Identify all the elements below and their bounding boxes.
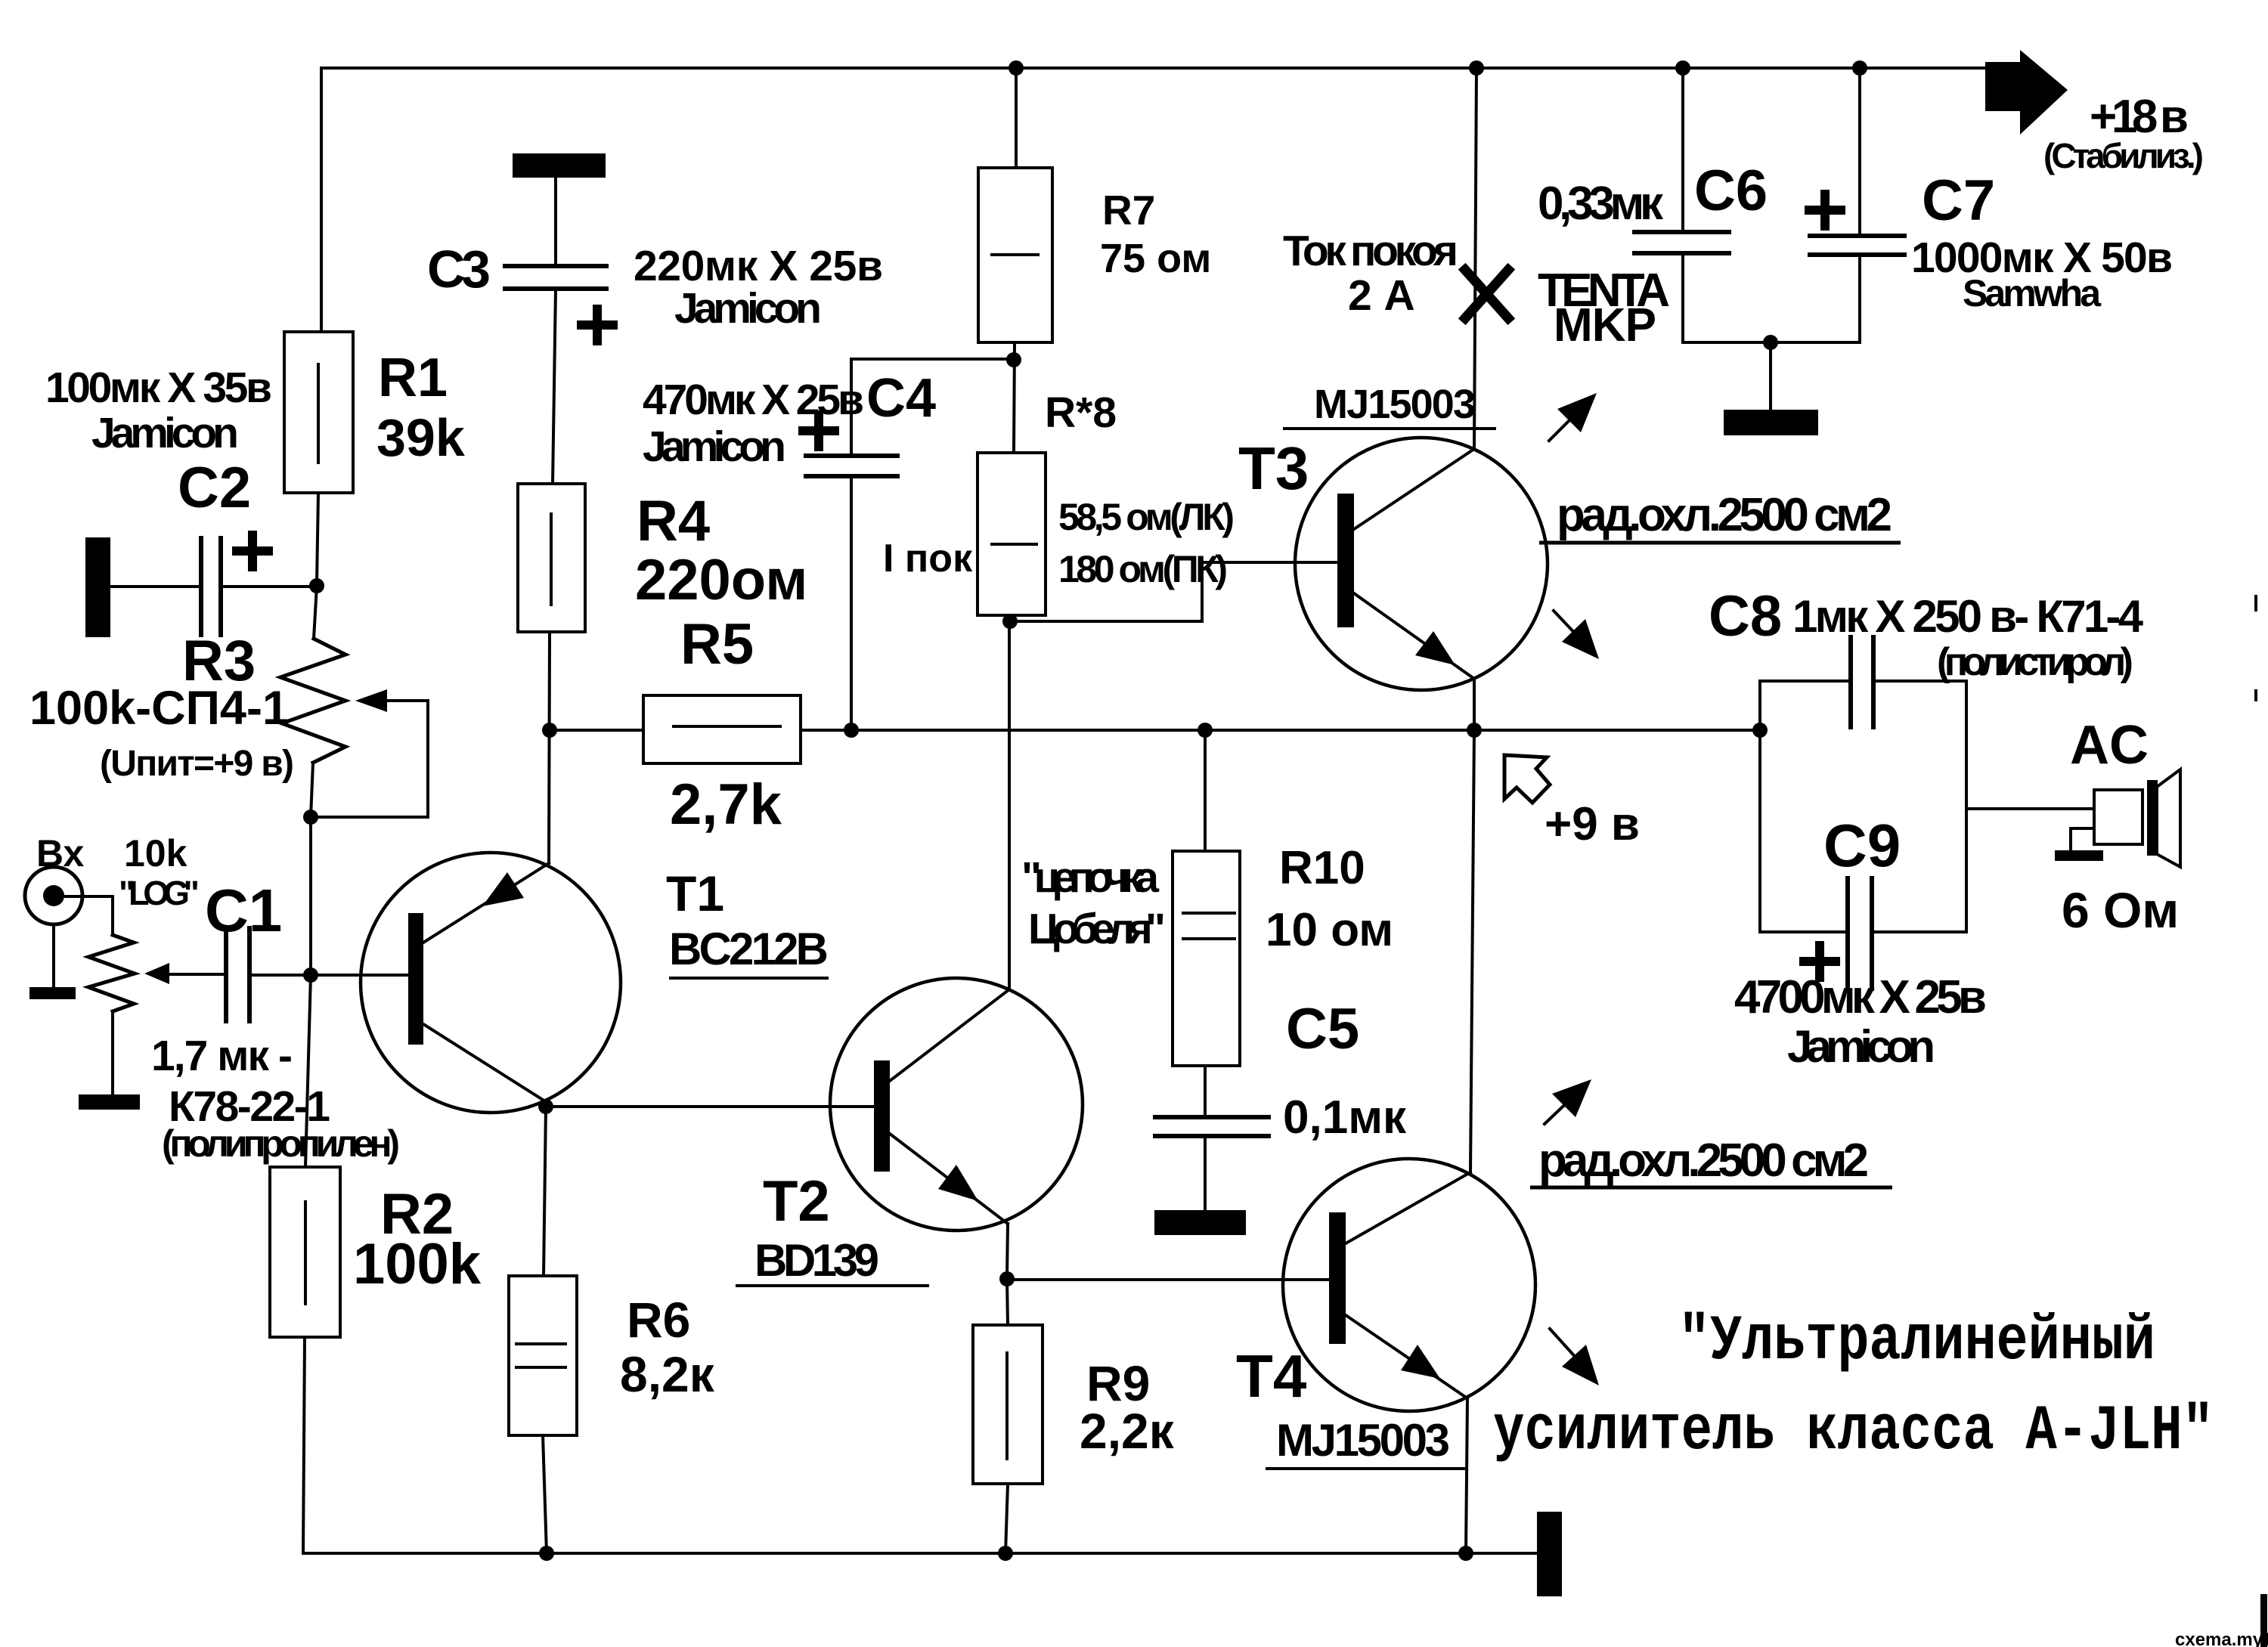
svg-text:C2: C2	[178, 456, 251, 520]
svg-text:1мк X 250 в- К71-4: 1мк X 250 в- К71-4	[1792, 591, 2144, 642]
node output T3/T4	[1467, 723, 1482, 738]
heatsink arrow T3 upper	[1549, 393, 1597, 441]
node box left	[1752, 723, 1768, 738]
wire mid rail R5 to C8/C9 box	[801, 729, 1760, 732]
node R8 bottom	[1002, 614, 1018, 629]
svg-text:180 ом(ПК): 180 ом(ПК)	[1058, 548, 1228, 590]
wire T1 top to R4/R5 node	[549, 632, 550, 863]
svg-text:220мк X 25в: 220мк X 25в	[634, 242, 883, 290]
resistor R10	[1173, 730, 1240, 1066]
node C4 line / R7-R8	[1006, 352, 1021, 367]
svg-text:C4: C4	[866, 368, 936, 429]
speaker AC	[2055, 769, 2180, 867]
heatsink arrow T3 lower	[1554, 611, 1599, 659]
capacitor C8	[1851, 637, 1873, 727]
resistor R6	[509, 1276, 577, 1435]
resistor R2	[270, 1167, 340, 1337]
resistor R1	[284, 332, 353, 493]
wire node down to R9	[1007, 1279, 1008, 1325]
svg-text:AC: AC	[2070, 715, 2149, 776]
svg-text:R7: R7	[1102, 187, 1155, 234]
capacitor C5	[1154, 1066, 1269, 1235]
wire R5 left	[550, 729, 643, 732]
svg-text:0,33мк: 0,33мк	[1538, 178, 1664, 230]
svg-text:усилитель класса А-JLH": усилитель класса А-JLH"	[1493, 1396, 2214, 1468]
svg-text:cxema.my1.ru: cxema.my1.ru	[2175, 1630, 2268, 1647]
node T2 emitter / R9 / T4 base	[999, 1271, 1015, 1286]
svg-text:(Стабилиз.): (Стабилиз.)	[2043, 136, 2204, 175]
svg-text:"Ультралинейный: "Ультралинейный	[1678, 1306, 2155, 1378]
svg-text:C1: C1	[205, 877, 282, 944]
ground rail bottom	[303, 1552, 1537, 1555]
wire R1 bottom to C2 node	[317, 493, 318, 584]
transistor T3	[1295, 438, 1548, 690]
wire R3 node down to C1 node	[309, 817, 312, 975]
node top rail / C6 branch	[1675, 60, 1690, 76]
svg-text:R4: R4	[637, 489, 710, 553]
svg-text:470мк X 25в: 470мк X 25в	[643, 376, 864, 424]
resistor R9	[973, 1325, 1043, 1484]
svg-text:Цобеля": Цобеля"	[1028, 905, 1166, 953]
wire T2 emitter down	[1007, 1224, 1008, 1279]
svg-text:10k: 10k	[124, 832, 187, 875]
svg-text:T1: T1	[666, 865, 724, 921]
wire R6 bottom to ground rail	[543, 1435, 547, 1553]
svg-text:39k: 39k	[376, 408, 465, 467]
node R10 tap	[1198, 723, 1213, 738]
svg-text:100k-СП4-1: 100k-СП4-1	[29, 682, 289, 735]
svg-text:MKP: MKP	[1554, 299, 1656, 351]
svg-text:Jamicon: Jamicon	[1787, 1021, 1935, 1072]
svg-text:2,7k: 2,7k	[670, 772, 782, 837]
svg-text:T3: T3	[1238, 435, 1309, 502]
wire R2 bottom to ground rail	[303, 1337, 305, 1553]
wire C1 node down to R2	[305, 975, 311, 1167]
transistor T1	[361, 853, 621, 1113]
node top rail / C7 branch	[1852, 60, 1867, 76]
svg-text:100k: 100k	[353, 1232, 482, 1296]
svg-text:BC212B: BC212B	[669, 924, 829, 974]
svg-text:220ом: 220ом	[635, 548, 807, 612]
wire R7 bottom to R8 top	[1014, 342, 1015, 453]
svg-text:Вх: Вх	[36, 832, 84, 875]
svg-text:C3: C3	[427, 240, 491, 299]
svg-text:+18 в: +18 в	[2090, 91, 2189, 143]
svg-text:C5: C5	[1286, 997, 1359, 1061]
potentiometer 10k LOG	[79, 935, 226, 1110]
hollow arrow +9 в	[1504, 755, 1550, 803]
resistor R7	[978, 68, 1052, 342]
svg-text:(полистирол): (полистирол)	[1937, 640, 2133, 684]
node T1 collector	[538, 1099, 553, 1114]
svg-text:"LOG": "LOG"	[119, 874, 200, 912]
wire T1 collector down to R6	[544, 1107, 546, 1276]
wire T3 collector up to rail	[1474, 68, 1476, 449]
node C2/R3	[309, 578, 324, 593]
wire R8 bottom step to T3 base	[1010, 615, 1012, 621]
svg-text:рад.охл.2500 см2: рад.охл.2500 см2	[1538, 1135, 1869, 1187]
svg-text:4700мк X 25в: 4700мк X 25в	[1734, 971, 1987, 1023]
wire box to speaker	[1966, 807, 2094, 810]
ground C6/C7	[1769, 342, 1772, 410]
wire C6-C7 bottom join	[1683, 341, 1860, 344]
svg-text:R5: R5	[680, 612, 754, 676]
svg-text:2,2к: 2,2к	[1080, 1403, 1175, 1459]
svg-text:C9: C9	[1823, 812, 1901, 879]
svg-text:0,1мк: 0,1мк	[1283, 1091, 1407, 1144]
node C1 output	[303, 967, 318, 983]
wire T4 emitter to ground rail	[1466, 1398, 1467, 1553]
transistor T2	[830, 978, 1083, 1231]
svg-text:C8: C8	[1709, 584, 1782, 649]
capacitor C7	[1809, 68, 1904, 342]
capacitor C2	[85, 535, 317, 637]
svg-text:R6: R6	[627, 1292, 690, 1348]
potentiometer R3	[280, 586, 428, 825]
svg-text:10 ом: 10 ом	[1266, 904, 1393, 956]
svg-text:1,7 мк -: 1,7 мк -	[151, 1032, 293, 1080]
wire T3 emitter down to output node	[1473, 679, 1476, 730]
wire top +18V rail	[321, 67, 1985, 70]
svg-text:2 А: 2 А	[1348, 271, 1415, 320]
power arrow +18 в	[1985, 50, 2068, 135]
transistor T4	[1283, 1159, 1535, 1411]
X mark	[1465, 270, 1508, 318]
wire T2 collector up to R8 node	[1008, 621, 1011, 989]
svg-text:58,5 ом(ЛК): 58,5 ом(ЛК)	[1058, 496, 1235, 538]
svg-text:8,2к: 8,2к	[620, 1346, 715, 1402]
svg-text:R*8: R*8	[1045, 389, 1117, 437]
svg-text:(Uпит=+9 в): (Uпит=+9 в)	[100, 744, 294, 784]
svg-text:Jamicon: Jamicon	[674, 284, 822, 333]
ground bar right end	[1537, 1512, 1562, 1596]
wire T1 collector to T2 base	[546, 1105, 874, 1108]
capacitor C4	[803, 359, 1014, 730]
wire node to T4 base	[1007, 1278, 1329, 1281]
svg-text:T2: T2	[763, 1169, 830, 1234]
svg-text:MJ15003: MJ15003	[1314, 382, 1476, 427]
scan artifacts right edge	[2260, 1594, 2267, 1647]
capacitor C6	[1634, 68, 1729, 342]
capacitor C3	[505, 153, 613, 484]
svg-text:Samwha: Samwha	[1963, 272, 2102, 314]
svg-text:Jamicon: Jamicon	[643, 423, 786, 471]
svg-text:T4: T4	[1236, 1342, 1307, 1410]
svg-text:C7: C7	[1922, 169, 1995, 233]
svg-text:рад.охл.2500 см2: рад.охл.2500 см2	[1557, 489, 1892, 541]
svg-text:"цепочка: "цепочка	[1021, 853, 1160, 902]
wire R9 bottom to ground rail	[1005, 1484, 1008, 1553]
svg-text:I пок: I пок	[883, 537, 973, 580]
heatsink arrow T4 upper	[1545, 1079, 1591, 1124]
svg-text:+9 в: +9 в	[1545, 798, 1640, 850]
node C4 tap	[844, 723, 859, 738]
capacitor C9	[1804, 878, 1872, 989]
svg-text:MJ15003: MJ15003	[1276, 1415, 1450, 1466]
wire left rail down to R1	[320, 68, 323, 332]
node top rail / R7 branch	[1009, 60, 1024, 76]
svg-text:6 Ом: 6 Ом	[2062, 882, 2179, 938]
svg-text:(полипропилен): (полипропилен)	[162, 1122, 400, 1165]
capacitor C1	[226, 928, 408, 1021]
node R4/R5/T1	[542, 723, 557, 738]
heatsink arrow T4 lower	[1550, 1329, 1599, 1385]
C8/C9 box	[1760, 681, 1966, 932]
svg-text:Jamicon: Jamicon	[91, 409, 239, 457]
svg-text:C6: C6	[1694, 159, 1768, 223]
svg-text:Ток покоя: Ток покоя	[1283, 227, 1458, 275]
node top rail / T3 branch	[1469, 60, 1484, 76]
resistor R4	[518, 484, 585, 632]
resistor R8	[978, 453, 1046, 615]
resistor R5	[643, 695, 801, 763]
svg-text:100мк X 35в: 100мк X 35в	[45, 364, 272, 412]
svg-text:BD139: BD139	[754, 1235, 879, 1286]
svg-text:R10: R10	[1279, 842, 1365, 894]
wire output node down to T4 collector	[1470, 730, 1474, 1172]
svg-text:R1: R1	[378, 348, 448, 408]
svg-text:75 ом: 75 ом	[1100, 236, 1211, 281]
input jack Вх	[25, 867, 113, 999]
